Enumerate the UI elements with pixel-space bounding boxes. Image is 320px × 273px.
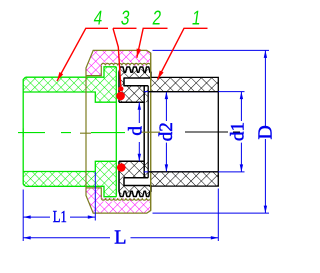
svg-text:L1: L1	[53, 207, 67, 226]
svg-text:d2: d2	[156, 122, 177, 141]
svg-text:d1: d1	[228, 122, 249, 141]
svg-text:D: D	[254, 125, 276, 139]
svg-text:L: L	[114, 227, 126, 249]
svg-text:d: d	[126, 126, 147, 136]
